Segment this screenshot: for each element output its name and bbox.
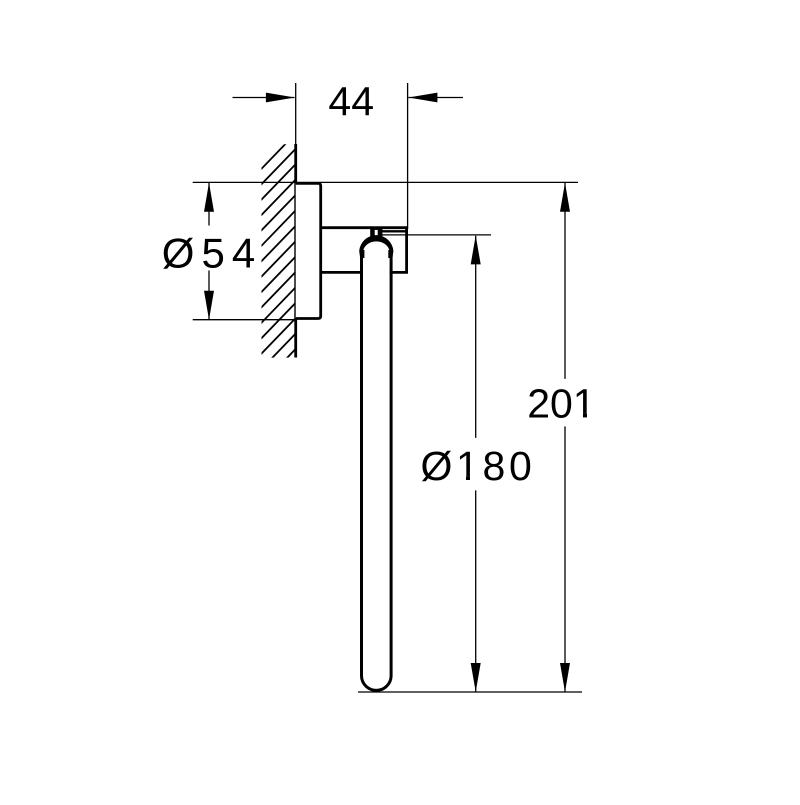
arm slot line xyxy=(382,230,406,232)
bottom extension line (ring bottom) xyxy=(358,691,582,693)
dim 44 left arrow xyxy=(233,93,295,103)
wall hatching xyxy=(260,133,295,416)
dim 44 left extension line (wall face extended up) xyxy=(295,83,297,145)
dim 44 right extension line xyxy=(407,83,409,229)
ring tube interior (white) xyxy=(363,245,390,676)
dim 44 right arrow xyxy=(408,93,463,103)
dim 54 line upper segment with up arrow xyxy=(204,183,214,226)
svg-text:201: 201 xyxy=(527,380,595,426)
pivot pin xyxy=(370,229,382,237)
dim 54 line lower segment with down arrow xyxy=(204,271,214,320)
dim 201 line lower segment with down arrow xyxy=(560,426,570,692)
towel ring capsule xyxy=(362,254,392,690)
support arm xyxy=(321,228,407,273)
ring dome-tube junction patches xyxy=(362,250,364,258)
wall plate (mounting flange) xyxy=(296,183,321,318)
svg-text:Ø54: Ø54 xyxy=(162,230,262,277)
dim 54 bottom extension line xyxy=(193,319,296,321)
ring top dome xyxy=(359,235,393,257)
dim 54 top extension line xyxy=(193,181,578,183)
wall face line xyxy=(294,144,297,358)
dim 180 line lower segment with down arrow xyxy=(471,490,481,692)
dim 201 line upper segment with up arrow xyxy=(560,183,570,379)
dim 180 top extension line xyxy=(381,234,491,236)
dim 180 line upper segment with up arrow xyxy=(471,235,481,438)
svg-text:Ø180: Ø180 xyxy=(420,443,535,489)
svg-text:44: 44 xyxy=(328,79,374,125)
